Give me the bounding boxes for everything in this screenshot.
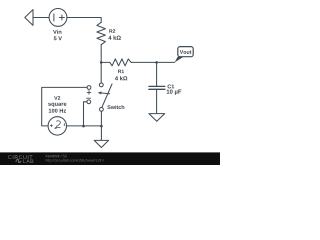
voltage source V1 (Vin 5 V) bbox=[49, 9, 67, 27]
resistor R2 bbox=[97, 22, 106, 44]
wire rail to GND3 bbox=[100, 126, 102, 140]
wire GND1 to V1 bbox=[33, 17, 49, 19]
logo LAB bbox=[23, 159, 33, 163]
node C (rail junction at control wire) bbox=[82, 125, 85, 128]
ground GND3 (below switch) bbox=[94, 140, 108, 147]
wire node A to switch top bbox=[100, 62, 102, 83]
wire R2 bottom to node A bbox=[100, 45, 102, 63]
switch control + terminal bbox=[87, 86, 91, 90]
wire R1 to Vout tail bbox=[131, 61, 175, 63]
wire node A to R1 bbox=[101, 61, 110, 63]
node flag Vout bbox=[175, 47, 194, 63]
ground GND1 (left, at Vin negative terminal) bbox=[25, 10, 33, 26]
label 5 V bbox=[54, 36, 62, 40]
logo waveform glyph bbox=[15, 159, 21, 162]
label 4 kOhm (R2) bbox=[108, 36, 120, 40]
voltage source V2 (square 100 Hz) bbox=[48, 117, 66, 135]
label Vout bbox=[180, 50, 192, 54]
label V2 bbox=[54, 96, 60, 100]
switch control - terminal bbox=[87, 100, 91, 104]
label Switch bbox=[107, 105, 124, 109]
ground GND2 (below C1) bbox=[149, 114, 165, 122]
footer bar bbox=[0, 152, 220, 165]
label 4 kOhm (R1) bbox=[115, 76, 127, 80]
label + (control polarity) bbox=[87, 91, 91, 95]
node D (rail junction below switch) bbox=[100, 125, 103, 128]
resistor R1 bbox=[110, 59, 131, 66]
label Vin bbox=[53, 30, 61, 34]
capacitor C1 bbox=[149, 86, 165, 89]
label 10 uF bbox=[167, 89, 182, 94]
wire V2 minus lead to rail bbox=[67, 125, 102, 127]
logo CIRCUIT bbox=[8, 155, 32, 159]
label 100 Hz bbox=[49, 109, 66, 113]
label R1 bbox=[118, 70, 124, 73]
node B (R1/C1/Vout junction) bbox=[155, 61, 158, 64]
wire V2 plus lead loop to control + bbox=[42, 87, 87, 126]
wire node B to C1 bbox=[156, 62, 158, 86]
label R2 bbox=[109, 29, 115, 32]
label square bbox=[48, 103, 66, 107]
footer url line bbox=[46, 159, 104, 162]
wire switch bottom to rail bbox=[100, 111, 102, 126]
wire C1 to GND2 bbox=[156, 89, 158, 113]
footer author line bbox=[46, 155, 67, 158]
node A (R2/R1/switch junction) bbox=[100, 61, 103, 64]
label C1 bbox=[168, 84, 175, 88]
wire control - to bottom rail bbox=[84, 102, 87, 126]
wire V1 to R2 top bbox=[67, 18, 101, 23]
switch SW1 bbox=[98, 83, 112, 111]
label - (control polarity) bbox=[87, 97, 91, 99]
